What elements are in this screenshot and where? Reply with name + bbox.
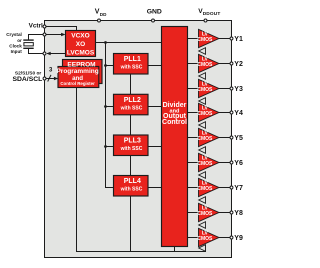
- svg-text:Input: Input: [11, 49, 23, 54]
- svg-text:VCXO: VCXO: [71, 32, 89, 39]
- svg-text:CMOS: CMOS: [197, 211, 213, 217]
- svg-text:Y9: Y9: [234, 235, 243, 242]
- svg-text:XO: XO: [76, 41, 85, 48]
- svg-text:LVCMOS: LVCMOS: [67, 50, 95, 57]
- svg-text:CMOS: CMOS: [197, 236, 213, 242]
- svg-text:Y4: Y4: [234, 110, 243, 117]
- svg-text:Control Register: Control Register: [60, 81, 95, 86]
- svg-text:PLL3: PLL3: [124, 138, 141, 145]
- svg-text:Y6: Y6: [234, 160, 243, 167]
- svg-text:CMOS: CMOS: [197, 136, 213, 142]
- svg-text:DDOUT: DDOUT: [203, 11, 221, 17]
- svg-text:Y2: Y2: [234, 61, 243, 68]
- svg-text:GND: GND: [147, 8, 162, 15]
- svg-text:CMOS: CMOS: [197, 111, 213, 117]
- svg-text:CMOS: CMOS: [197, 161, 213, 167]
- svg-text:CMOS: CMOS: [197, 37, 213, 43]
- svg-text:with SSC: with SSC: [120, 187, 143, 193]
- svg-text:Y7: Y7: [234, 185, 243, 192]
- svg-text:PLL4: PLL4: [124, 178, 141, 185]
- svg-text:Clock: Clock: [9, 43, 22, 48]
- svg-text:Y5: Y5: [234, 135, 243, 142]
- svg-text:or: or: [17, 38, 22, 43]
- svg-text:DD: DD: [100, 12, 107, 17]
- svg-text:Y8: Y8: [234, 210, 243, 217]
- svg-text:with SSC: with SSC: [120, 146, 143, 152]
- svg-text:PLL1: PLL1: [124, 56, 141, 63]
- svg-text:with SSC: with SSC: [120, 65, 143, 71]
- svg-text:CMOS: CMOS: [197, 62, 213, 68]
- svg-text:Control: Control: [162, 119, 187, 126]
- svg-text:Crystal: Crystal: [6, 32, 22, 37]
- svg-text:Y3: Y3: [234, 86, 243, 93]
- svg-text:with SSC: with SSC: [120, 105, 143, 111]
- svg-text:CMOS: CMOS: [197, 186, 213, 192]
- svg-text:CMOS: CMOS: [197, 87, 213, 93]
- svg-text:Vctrl: Vctrl: [29, 23, 43, 30]
- svg-text:Y1: Y1: [234, 36, 243, 43]
- svg-text:PLL2: PLL2: [124, 97, 141, 104]
- svg-text:SDA/SCL: SDA/SCL: [12, 76, 42, 83]
